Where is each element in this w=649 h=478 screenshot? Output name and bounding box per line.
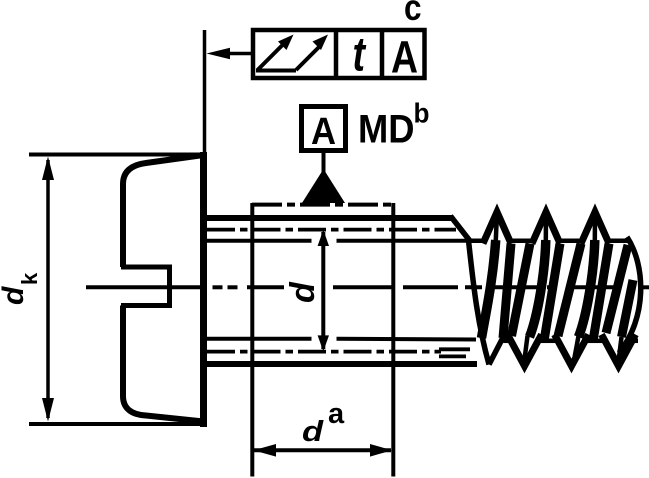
thread root bottom segment 2 [541,339,556,344]
thread root bottom segment 1 [504,339,509,344]
phantom line MD top [252,203,394,207]
thread helix middle line turn 3 [593,213,598,242]
phantom pitch line bottom [207,350,441,354]
thread crest top 2 [532,212,560,244]
tolerance frame leader line [222,52,251,56]
thread crest top 3 [581,212,609,244]
thread root top segment 1 [467,239,484,244]
thread helix right line turn 3 [593,244,609,342]
thread helix partial middle line turn 4 [622,280,634,337]
label d (rotated) [284,281,322,303]
svg-text:a: a [328,398,345,430]
thread root bottom segment 4 [635,339,639,344]
head slot top line [121,265,172,270]
centerline [86,285,649,289]
total runout symbol left arrowhead [278,35,294,51]
thread runout short line upper [439,347,470,351]
label dk [0,272,42,305]
thread incomplete boundary curve [469,241,490,365]
tolerance frame divider 2 [380,30,385,78]
dimension d upper arrowhead [318,230,329,246]
extension line left (da) [250,203,254,477]
svg-text:d: d [284,281,322,303]
svg-text:A: A [391,32,418,83]
svg-text:b: b [414,98,430,129]
phantom pitch line top [207,228,456,232]
thread crest bottom 3 [602,335,636,367]
svg-text:MD: MD [358,108,415,152]
total runout symbol right arrow shaft [296,47,320,71]
dimension d line [321,232,325,349]
thread helix middle line turn 1 [496,213,497,242]
total runout symbol baseline [256,69,296,73]
thread root top segment 2 [510,239,533,244]
thread crest bottom 2 [555,335,589,367]
total runout symbol left arrow shaft [258,43,286,71]
screw head outline [123,155,204,422]
thread root bottom segment 3 [588,339,603,344]
svg-text:k: k [17,272,42,285]
dimension da left arrowhead [254,444,277,457]
thread crest top 1 [483,212,511,244]
svg-text:c: c [404,0,422,28]
total runout symbol right arrowhead [313,35,329,51]
tolerance frame divider 1 [334,30,339,78]
dimension dk lower arrowhead [42,398,54,422]
tolerance frame leader arrowhead [207,48,231,59]
svg-text:A: A [311,111,336,153]
root line bottom right part [337,337,477,342]
dimension dk top extension line [29,153,207,157]
tolerance frame box [253,30,425,78]
svg-text:d: d [0,286,30,305]
screw head right face [200,152,207,427]
svg-text:t: t [353,29,367,82]
thread helix middle line turn 2 [544,213,549,242]
root line top right part [337,239,484,243]
dimension dk upper arrowhead [42,157,54,181]
dimension dk dimension line [46,160,50,418]
head slot bottom line [121,303,172,308]
screw break arc right end [619,237,641,353]
thread helix left line turn 3 [558,244,581,337]
dimension da right arrowhead [370,444,392,457]
thread root top segment 3 [559,239,582,244]
thread helix right line turn 2 [544,244,560,342]
thread helix right line turn 1 [503,244,511,339]
dimension dk bottom extension line [29,422,207,426]
datum stem [322,151,326,172]
root line top (solid thin) left part [204,239,312,243]
upper extension line from head to leader [203,30,207,152]
thread runout short line lower [439,354,466,358]
label da [302,415,325,448]
thread root top segment 4 [608,239,629,244]
thread crest bottom 1 [508,335,542,367]
thread helix partial left line turn 4 [606,245,628,333]
root line bottom left part [204,337,312,341]
shank bottom outline [204,361,477,367]
head slot inner vertical [167,267,172,306]
thread partial bottom crest V0 right side [489,337,504,365]
svg-text:d: d [302,415,325,448]
shank top taper to thread [451,216,471,241]
datum symbol box [302,107,346,151]
shank top outline [204,215,452,221]
dimension da line [254,448,391,452]
thread helix left line turn 2 [512,244,531,337]
dimension d lower arrowhead [318,335,329,351]
extension line right (da) [391,203,395,477]
datum triangle [302,169,345,203]
